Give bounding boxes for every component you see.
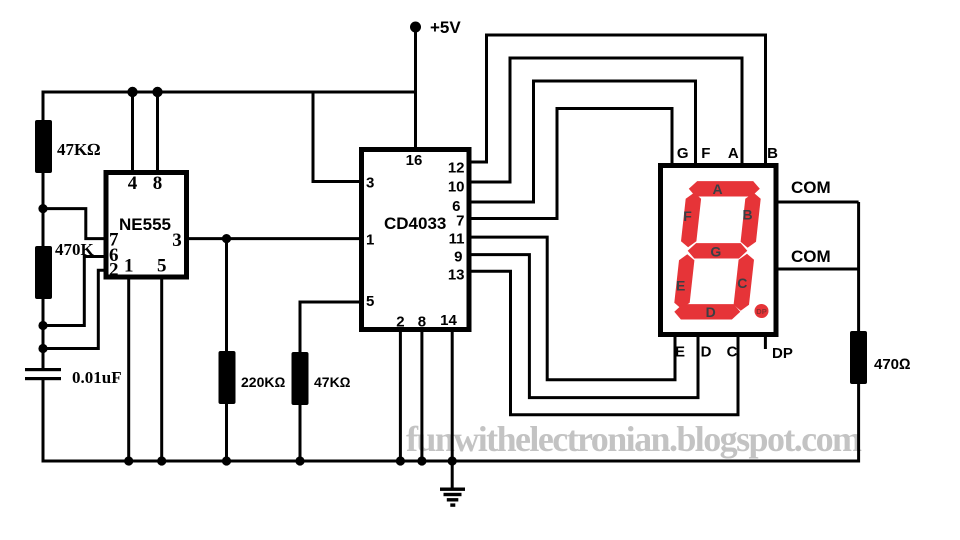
display segment F — [681, 193, 701, 248]
wire NE555 pin 2 — [43, 270, 105, 348]
svg-text:A: A — [728, 145, 739, 162]
svg-text:C: C — [727, 344, 738, 361]
wire CD4033 pin2 down — [399, 330, 402, 461]
wire R3 branch — [225, 239, 228, 351]
svg-text:CD4033: CD4033 — [384, 214, 446, 233]
junction R3 bottom — [222, 456, 231, 465]
svg-text:1: 1 — [366, 232, 374, 249]
display segment A — [689, 181, 760, 196]
wire pin11 to segment E — [469, 237, 675, 380]
svg-text:E: E — [675, 344, 685, 361]
svg-text:0.01uF: 0.01uF — [72, 368, 122, 387]
wire rail to NE555 pin 4 — [131, 92, 134, 172]
svg-text:220KΩ: 220KΩ — [241, 374, 285, 390]
svg-text:11: 11 — [449, 231, 465, 248]
wire NE555 pin5 down — [160, 278, 163, 461]
junction pin1 bottom — [124, 456, 133, 465]
junction pin5 bottom — [157, 456, 166, 465]
display DS1 seven segment body — [661, 166, 777, 335]
wire top rail — [42, 94, 45, 121]
svg-text:2: 2 — [109, 260, 119, 281]
svg-text:10: 10 — [448, 179, 465, 196]
junction R4 bottom — [295, 456, 304, 465]
svg-text:2: 2 — [396, 314, 404, 331]
svg-text:47KΩ: 47KΩ — [57, 140, 100, 159]
svg-text:3: 3 — [366, 175, 374, 192]
junction pin2 bottom — [396, 456, 405, 465]
resistor R3 220K&#937; body — [219, 351, 236, 404]
display decimal point DP — [755, 304, 769, 318]
wire CD4033 pin5 — [300, 302, 360, 352]
wire COM to R5 — [857, 202, 860, 331]
node +5V terminal — [410, 22, 421, 33]
wire CD4033 pin14 down to ground — [451, 330, 454, 489]
wire rail to NE555 pin 8 — [156, 92, 159, 172]
wire R1 bottom to R2 top — [42, 173, 45, 246]
svg-text:G: G — [677, 145, 689, 162]
svg-text:8: 8 — [418, 314, 426, 331]
display segment E — [674, 254, 694, 308]
wire pin13 to segment C — [469, 271, 738, 414]
wire pin9 to segment D — [469, 255, 698, 398]
wire COM upper — [777, 201, 859, 204]
svg-text:DP: DP — [772, 345, 793, 362]
svg-text:F: F — [683, 208, 692, 224]
svg-text:F: F — [701, 145, 710, 162]
wire DP stub — [764, 334, 767, 349]
svg-text:NE555: NE555 — [119, 215, 171, 234]
svg-text:5: 5 — [366, 293, 374, 310]
svg-text:D: D — [706, 304, 716, 320]
svg-text:DP: DP — [756, 307, 766, 316]
wire capacitor to bottom rail — [42, 380, 45, 463]
display segment D — [674, 304, 740, 319]
svg-text:G: G — [710, 244, 721, 260]
svg-text:E: E — [676, 278, 685, 294]
junction pin4 on rail — [127, 87, 137, 97]
svg-text:C: C — [737, 275, 747, 291]
counter U2 CD4033 body — [362, 150, 470, 330]
wire CD4033 pin3 to rail — [313, 92, 360, 182]
resistor R5 470&#937; body — [850, 331, 867, 384]
wire NE555 pin 7 — [43, 209, 105, 239]
svg-text:7: 7 — [456, 213, 464, 230]
resistor R2 470K body — [35, 246, 52, 299]
svg-text:8: 8 — [153, 173, 163, 194]
op-amp timer U1 NE555 body — [106, 173, 187, 278]
display segment C — [734, 254, 754, 311]
svg-text:5: 5 — [157, 256, 167, 277]
junction pin8 bottom — [417, 456, 426, 465]
wire pin7 to segment G — [469, 109, 672, 219]
wire NE555 pin3 to CD4033 pin1 — [188, 237, 360, 240]
svg-text:1: 1 — [124, 256, 134, 277]
junction node pin3/R3 — [222, 234, 231, 243]
wire pin12 to segment B — [469, 35, 766, 166]
junction node pin6 tap — [38, 321, 47, 330]
wire R5 to bottom rail — [857, 384, 860, 463]
svg-text:D: D — [701, 344, 712, 361]
svg-text:12: 12 — [448, 160, 465, 177]
wire bottom rail — [43, 460, 859, 463]
ground symbol — [440, 488, 465, 507]
resistor R1 47K&#937; body — [35, 120, 52, 173]
junction pin14 bottom — [448, 456, 457, 465]
svg-text:COM: COM — [791, 247, 831, 266]
svg-text:3: 3 — [172, 230, 182, 251]
wire COM lower — [777, 268, 859, 271]
svg-text:B: B — [742, 207, 752, 223]
wire +5V to CD4033 pin16 — [414, 27, 417, 149]
wire NE555 pin 6 — [43, 257, 105, 326]
svg-text:funwithelectronian.blogspot.co: funwithelectronian.blogspot.com — [406, 419, 862, 459]
junction node pin2 tap — [38, 344, 47, 353]
svg-text:16: 16 — [406, 152, 423, 169]
svg-text:COM: COM — [791, 178, 831, 197]
wire R4 to bottom rail — [299, 405, 302, 461]
display segment G — [688, 243, 748, 258]
svg-text:4: 4 — [128, 173, 138, 194]
junction pin8 on rail — [152, 87, 162, 97]
wire pin6 to segment F — [469, 81, 696, 202]
svg-text:B: B — [767, 145, 778, 162]
capacitor C1 0.01uF plates — [25, 368, 61, 371]
svg-text:13: 13 — [448, 267, 465, 284]
svg-text:470Ω: 470Ω — [874, 356, 911, 373]
svg-text:14: 14 — [440, 312, 457, 329]
wire R3 to bottom rail — [225, 404, 228, 461]
wire CD4033 pin8 down — [420, 330, 423, 461]
display segment B — [741, 193, 761, 248]
wire NE555 pin1 down — [127, 278, 130, 461]
resistor R4 47K&#937; body — [292, 352, 309, 405]
svg-text:+5V: +5V — [430, 18, 461, 37]
svg-text:47KΩ: 47KΩ — [314, 374, 351, 390]
svg-text:9: 9 — [454, 249, 462, 266]
svg-text:A: A — [712, 181, 722, 197]
wire R2 bottom to capacitor — [42, 299, 45, 368]
wire pin10 to segment A — [469, 58, 742, 182]
junction node pin7 tap — [38, 204, 47, 213]
wire top horizontal rail — [42, 91, 416, 94]
